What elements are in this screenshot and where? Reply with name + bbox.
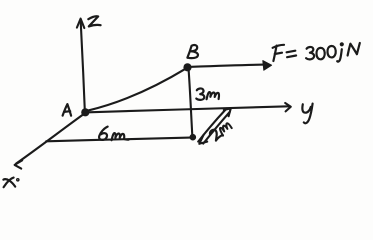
z-axis arrowhead xyxy=(77,19,84,28)
label 2m (rotated) xyxy=(209,119,232,141)
force F arrowhead xyxy=(263,61,272,71)
label 0 (second) xyxy=(327,46,335,57)
label 3m xyxy=(196,88,219,99)
label j xyxy=(337,43,343,61)
node A dot xyxy=(81,108,89,116)
2m upper arrowhead xyxy=(224,108,231,116)
label y xyxy=(302,104,312,124)
z-axis xyxy=(81,22,85,111)
label 6m xyxy=(99,127,128,141)
node B dot xyxy=(183,63,191,71)
y-axis arrowhead xyxy=(285,103,291,111)
label B xyxy=(187,45,198,58)
2m dimension shaft 2 xyxy=(203,112,230,144)
label = xyxy=(287,51,297,58)
wire B down to base point (3m edge) xyxy=(189,70,193,136)
2m lower arrowhead xyxy=(199,135,207,144)
x-axis xyxy=(16,114,84,164)
y-axis xyxy=(88,106,289,112)
label F xyxy=(273,45,284,61)
x-axis arrowhead xyxy=(15,160,23,168)
label Z xyxy=(88,16,100,26)
force F line xyxy=(192,65,265,67)
2m dimension shaft 1 xyxy=(198,109,226,142)
wire 6m base line xyxy=(46,138,190,142)
label x xyxy=(3,178,18,188)
label N xyxy=(348,43,360,56)
label A xyxy=(63,104,72,116)
label 3 (300) xyxy=(306,47,314,59)
wire A to B xyxy=(87,68,187,111)
label 0 (first) xyxy=(316,48,324,59)
base corner dot xyxy=(190,134,197,141)
